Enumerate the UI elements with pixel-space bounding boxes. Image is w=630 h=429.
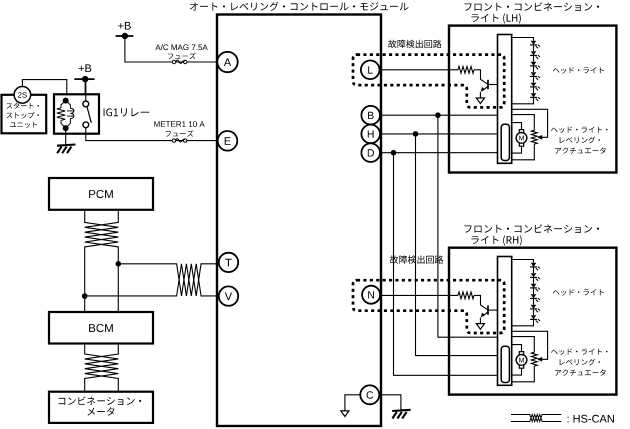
wire motor top RH — [512, 345, 522, 352]
wire relay to E fuse — [86, 128, 218, 141]
arrow to ground L — [476, 98, 484, 104]
node V junction — [82, 293, 88, 299]
wire LED link — [533, 267, 535, 273]
wire N terminal to resistor — [380, 294, 459, 296]
relay switch — [85, 79, 87, 101]
wire resistor top LH — [512, 115, 535, 131]
terminal A — [217, 52, 237, 72]
power +B (relay) — [79, 64, 92, 72]
connector 2S — [14, 87, 31, 104]
wire LED link — [533, 56, 535, 62]
label combination meter — [59, 397, 142, 406]
fault detection circuit RH (dotted box) — [353, 280, 504, 333]
wire LED link — [533, 77, 535, 83]
label fault detect LH — [388, 40, 441, 48]
wire resistor bottom RH — [512, 366, 535, 382]
motor LH — [519, 130, 523, 133]
label IG1 relay — [104, 108, 150, 116]
wire LED link — [533, 66, 535, 72]
combination meter box — [49, 392, 153, 423]
wire LED return RH — [512, 320, 534, 326]
wire LED link — [533, 309, 535, 315]
wire LED return LH — [512, 98, 534, 104]
wiper arrow RH — [537, 357, 542, 362]
front combination light RH box — [449, 248, 616, 395]
label BCM — [89, 324, 113, 332]
arrow to ground C — [341, 411, 349, 417]
LED LH5 — [531, 83, 537, 87]
terminal B — [361, 106, 380, 125]
label METER1 10A — [154, 121, 204, 127]
wire C to arrow — [345, 395, 360, 411]
fuse A/C MAG 7.5A — [172, 60, 175, 63]
resistor RH actuator — [531, 352, 537, 366]
label actuator RH — [551, 349, 608, 356]
wire LED link — [533, 45, 535, 51]
wire B drop to RH lamp — [438, 115, 498, 337]
wire B to LH lamp — [380, 114, 498, 116]
wire N resistor to transistor — [474, 295, 488, 309]
actuator connector LH — [501, 124, 509, 160]
label HS-CAN — [568, 415, 614, 423]
LED LH3 — [531, 62, 537, 66]
label fault detect RH — [390, 255, 443, 263]
label A/C MAG 7.5A — [155, 44, 207, 50]
terminal D — [361, 143, 380, 162]
wire H to LH lamp — [380, 133, 498, 135]
wire +B to relay switch — [84, 79, 86, 103]
twisted pair to T V — [118, 264, 219, 296]
label headlight RH — [553, 289, 604, 296]
twisted pair BCM-meter — [85, 344, 119, 392]
wire resistor top RH — [512, 337, 535, 353]
wire LED link — [533, 87, 535, 93]
wire LED feed LH — [512, 38, 534, 41]
wire +B to fuse to A — [125, 36, 218, 62]
terminal E — [218, 131, 238, 151]
label front combination LH — [464, 2, 599, 11]
wire LED link — [533, 278, 535, 284]
LED RH5 — [531, 305, 537, 309]
LED RH4 — [531, 294, 537, 298]
terminal H — [361, 125, 380, 144]
terminal T — [219, 253, 238, 272]
node T junction — [116, 261, 122, 267]
node H junction — [413, 131, 419, 137]
wire wiper LH — [512, 109, 548, 137]
LED RH1 — [531, 263, 537, 267]
node D junction — [391, 150, 397, 156]
transistor L — [487, 80, 489, 89]
LED LH2 — [531, 51, 537, 55]
LED LH1 — [531, 41, 537, 45]
wiper arrow LH — [537, 135, 542, 140]
front combination light LH box — [449, 26, 616, 173]
LED LH4 — [531, 72, 537, 76]
actuator connector RH — [501, 346, 509, 382]
wire motor top LH — [512, 123, 522, 130]
wire LED link — [533, 299, 535, 305]
wire L terminal to resistor — [380, 69, 459, 71]
wire 2S to relay coil — [22, 80, 66, 101]
LED LH6 — [531, 93, 537, 97]
wire LED feed RH — [512, 260, 534, 263]
wire C to ground — [381, 395, 401, 410]
fault detection circuit LH (dotted box) — [353, 55, 504, 108]
wire LED link — [533, 288, 535, 294]
terminal L — [361, 61, 380, 80]
ground (C) — [392, 410, 410, 411]
start stop unit box — [2, 95, 47, 134]
node B junction — [435, 112, 441, 118]
wire L resistor to transistor — [474, 70, 488, 84]
resistor N fault — [458, 292, 474, 299]
auto leveling control module box — [217, 15, 381, 427]
wire motor bottom RH — [512, 368, 522, 375]
twisted pair PCM-BCM — [85, 210, 119, 312]
BCM box — [49, 312, 153, 344]
terminal N — [362, 286, 380, 304]
power +B (A line) — [118, 22, 131, 30]
resistor L fault — [458, 66, 474, 73]
wire H drop to RH lamp — [416, 134, 498, 356]
label module title — [190, 2, 409, 11]
ground (relay) — [65, 131, 67, 144]
label actuator LH — [551, 126, 608, 133]
fuse METER1 10A — [172, 139, 175, 142]
legend HS-CAN twisted pair symbol — [511, 415, 561, 422]
label PCM — [89, 190, 113, 198]
wire D drop to RH lamp — [394, 153, 498, 376]
wire resistor bottom LH — [512, 144, 535, 160]
LED RH2 — [531, 273, 537, 277]
wire D to LH lamp — [380, 152, 498, 154]
label headlight LH — [553, 67, 604, 74]
label front combination RH — [464, 224, 599, 233]
wire wiper RH — [512, 331, 548, 359]
motor RH — [519, 352, 523, 355]
label start stop unit — [7, 103, 40, 109]
connector RH — [498, 257, 512, 386]
transistor N — [487, 305, 489, 314]
LED RH3 — [531, 284, 537, 288]
resistor LH actuator — [531, 130, 537, 144]
wire motor bottom LH — [512, 146, 522, 153]
PCM box — [49, 178, 153, 210]
terminal C — [360, 385, 379, 404]
relay coil — [63, 98, 69, 104]
arrow to ground N — [476, 324, 484, 330]
LED RH6 — [531, 315, 537, 319]
connector LH — [498, 35, 512, 164]
terminal V — [219, 286, 238, 305]
relay IG1 box — [54, 94, 99, 133]
